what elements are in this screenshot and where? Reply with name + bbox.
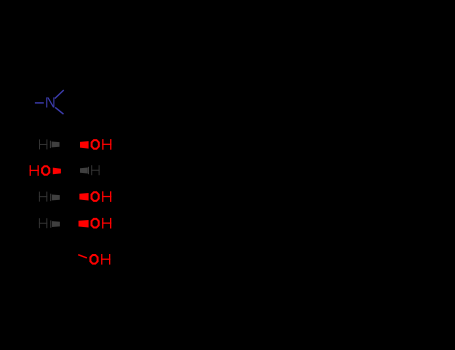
node O of OH on C6 [89, 254, 98, 265]
wire: bond C6-OH oxygen half [78, 255, 87, 258]
wire: bond C6-OH carbon half (invisible) [70, 252, 79, 255]
node H on C4 (gray) [39, 192, 47, 202]
node H of OH on C6 [101, 254, 110, 265]
node H on C2 (gray) [39, 139, 47, 149]
solid wedge C5-OH (red half) [79, 220, 89, 228]
wire: bond C2-C3 (invisible) [74, 144, 76, 170]
hashed wedge C4-H [50, 194, 60, 201]
wire: bond CH3-N carbon half (invisible) [25, 102, 35, 104]
wire: bond CH3-N nitrogen half [35, 102, 44, 104]
solid wedge C3-OH (red half) [53, 168, 61, 175]
wire: bond C3-C4 (invisible) [74, 171, 76, 197]
node H of OH on C5 [102, 218, 111, 229]
node N (nitrogen label) [46, 97, 54, 107]
wire: bond N-C1, nitrogen half [55, 107, 63, 114]
wire: bond C4-C5 (invisible) [74, 197, 76, 224]
node O of OH on C5 [91, 218, 100, 229]
node H on C5 (gray) [39, 218, 47, 228]
wire: bond N-C1, carbon half (invisible) [64, 114, 72, 121]
wire: bond N-CH3 upper, carbon half (invisible) [64, 81, 74, 90]
wire: bond C5-C6 (invisible) [70, 223, 76, 251]
wire: bond N-CH3 upper, nitrogen half [55, 90, 64, 99]
wire: bond C1-C2 (invisible) [72, 121, 76, 145]
node H on C3 (gray) [91, 165, 99, 175]
hashed wedge C3-H [80, 167, 89, 174]
solid wedge C4-OH (red half) [79, 193, 88, 201]
node H of HO on C3 [30, 165, 39, 176]
node H of OH on C2 [102, 139, 111, 150]
node O of HO on C3 [41, 165, 50, 176]
solid wedge C2-OH (red half) [80, 141, 89, 149]
node H of OH on C4 [102, 191, 111, 202]
node O of OH on C2 [91, 139, 100, 150]
hashed wedge C5-H [50, 220, 60, 227]
node O of OH on C4 [91, 191, 100, 202]
hashed wedge C2-H [50, 141, 60, 148]
